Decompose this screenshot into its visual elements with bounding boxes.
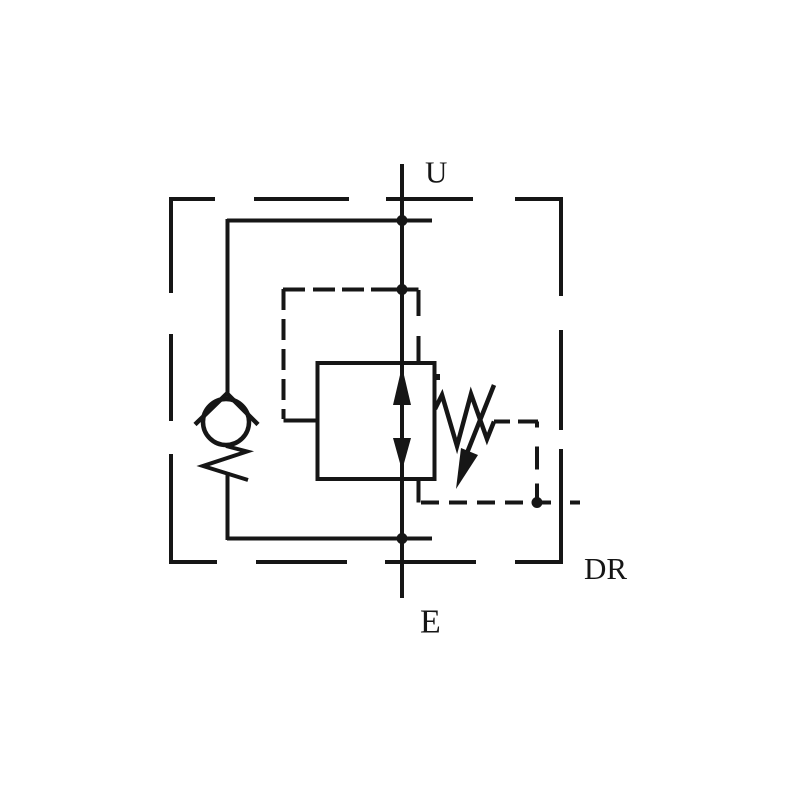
- wire: bottom horizontal branch: [227, 537, 432, 541]
- pilot dashed vertical to drain: [535, 422, 539, 503]
- adjustment arrow head: [456, 448, 478, 489]
- check valve V1 ball: [203, 399, 249, 445]
- node junction at E line bottom: [397, 533, 408, 544]
- check valve V1 seat: [195, 394, 258, 425]
- spring S1 zigzag: [435, 394, 494, 446]
- wire: main vertical line U to E: [400, 164, 404, 598]
- wire: pilot connector into valve body: [284, 419, 319, 423]
- enclosure dashed right edge: [559, 197, 563, 564]
- check valve V1 spring: [203, 446, 248, 480]
- node junction at U line top: [397, 215, 408, 226]
- enclosure dashed top edge: [171, 197, 563, 201]
- valve U1 body: [318, 363, 435, 479]
- adjustment arrow shaft: [467, 385, 494, 453]
- wire: pilot elbow right of junction: [402, 288, 419, 292]
- pilot line dashed top edge: [283, 288, 401, 292]
- pilot dashed horizontal from spring: [494, 420, 538, 424]
- valve U1 flow arrow down: [393, 438, 411, 471]
- wire: drain elbow below valve body: [417, 479, 421, 503]
- drain dashed horizontal line to DR: [421, 501, 580, 505]
- pilot line dashed left edge: [282, 289, 286, 419]
- svg-text:DR: DR: [584, 551, 627, 586]
- wire: left vertical branch down to check valve: [226, 219, 230, 394]
- enclosure dashed left edge: [169, 197, 173, 564]
- svg-text:U: U: [425, 155, 447, 190]
- svg-text:E: E: [420, 604, 441, 641]
- wire: left vertical branch below check valve: [226, 472, 230, 540]
- wire: top horizontal branch: [227, 219, 432, 223]
- valve U1 flow arrow up: [393, 367, 411, 406]
- enclosure dashed bottom edge: [171, 560, 563, 564]
- spring S1 anchor dot: [434, 374, 440, 380]
- pilot line dashed vertical into valve top: [417, 290, 421, 362]
- node junction on drain line: [532, 497, 543, 508]
- node junction pilot tap: [397, 284, 408, 295]
